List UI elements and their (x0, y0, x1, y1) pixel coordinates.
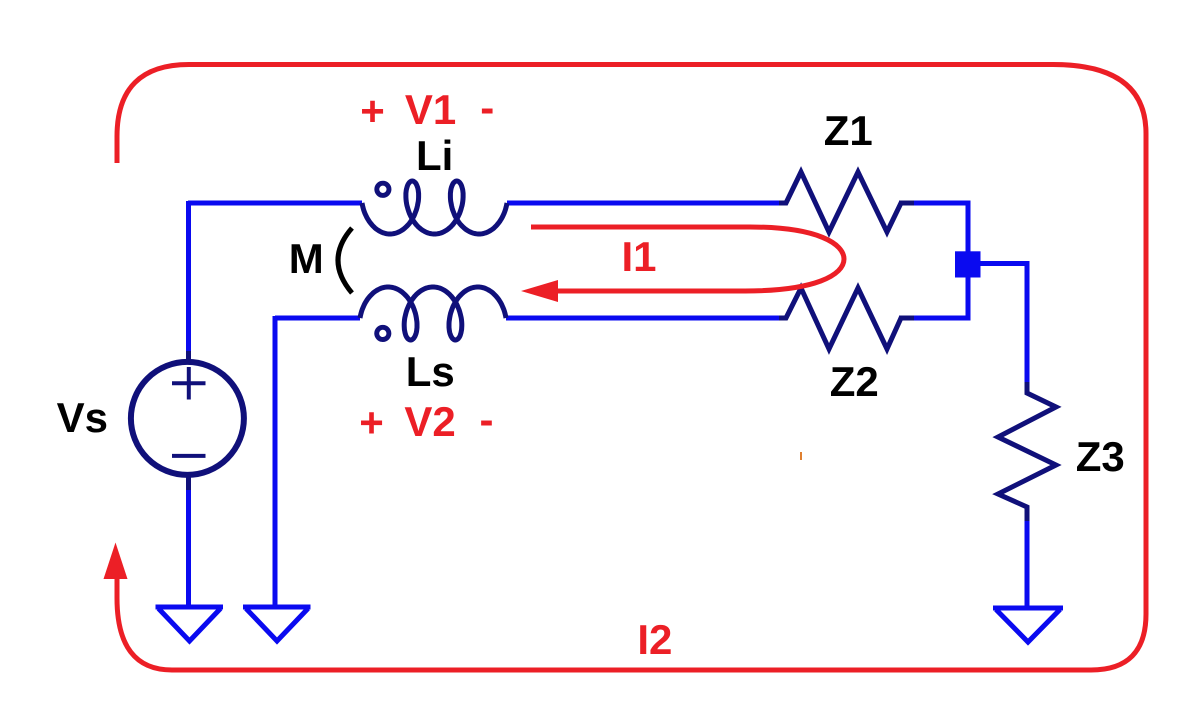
wire Li to Z1 (507, 201, 785, 206)
mutual coupling arc M (338, 228, 352, 293)
wire top-left horizontal (188, 201, 362, 206)
svg-text:Z2: Z2 (830, 358, 879, 405)
node junction square (955, 251, 981, 277)
inductor Ls dot (377, 327, 389, 339)
resistor Z3 zigzag (998, 382, 1056, 521)
svg-text:-: - (480, 396, 494, 443)
wire second vertical to ground (273, 316, 278, 608)
wire node to Z3 (977, 264, 1030, 385)
source Vs lead stubs (186, 351, 191, 490)
loop I2 arrowhead (up, left side) (104, 543, 128, 580)
wire source to ground (186, 474, 191, 608)
wire Z3 to ground (1025, 519, 1030, 609)
ground G2 (243, 605, 311, 610)
svg-text:Z3: Z3 (1076, 433, 1125, 480)
svg-text:V2: V2 (404, 398, 455, 445)
svg-text:Li: Li (416, 132, 453, 179)
resistor Z1 zigzag (779, 172, 914, 232)
inductor Li coil (362, 181, 507, 234)
wire left vertical to source (186, 201, 191, 363)
ground G3 (993, 606, 1063, 611)
source minus sign (172, 454, 206, 458)
ground G1 (156, 605, 224, 610)
svg-text:Ls: Ls (406, 348, 455, 395)
inductor Li dot (377, 183, 389, 195)
loop I1 red ellipse (531, 227, 844, 291)
inductor Ls coil (360, 287, 506, 340)
svg-text:I1: I1 (621, 233, 656, 280)
source Vs circle (131, 362, 244, 475)
loop I2 red rounded-rect (right/top/bottom portions) (117, 65, 1146, 671)
svg-text:-: - (480, 84, 494, 131)
wire Z2 to node (899, 275, 968, 318)
wire Ls to Z2 (506, 316, 785, 321)
svg-text:Z1: Z1 (824, 107, 873, 154)
svg-text:+: + (360, 88, 385, 135)
svg-text:I2: I2 (637, 616, 672, 663)
wire Ls left to second vertical (275, 316, 360, 321)
loop I1 arrowhead (left) (521, 280, 558, 302)
resistor Z2 zigzag (779, 288, 914, 349)
svg-text:V1: V1 (405, 86, 456, 133)
wire Z1 to node corner (899, 203, 968, 253)
svg-text:M: M (289, 235, 324, 282)
stray orange tick (800, 452, 802, 460)
svg-text:+: + (359, 399, 384, 446)
source plus sign (172, 367, 206, 400)
svg-text:Vs: Vs (57, 394, 108, 441)
